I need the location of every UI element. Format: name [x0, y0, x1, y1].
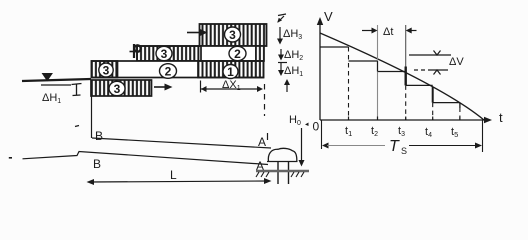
flag at row2 corner [130, 44, 141, 58]
circle 3 row1 [225, 27, 241, 42]
svg-text:2: 2 [234, 47, 241, 61]
t2 drop [377, 61, 379, 72]
TS dimension [322, 120, 483, 152]
dim tick left [72, 84, 82, 96]
arrow dH2 [278, 49, 284, 61]
circle 3 row3 [99, 63, 113, 78]
svg-text:B: B [93, 157, 101, 171]
circle 1 row3 [223, 65, 238, 80]
svg-text:Δt: Δt [383, 26, 393, 38]
t4 bold drop [432, 87, 434, 103]
t5 dashed lower [459, 108, 461, 120]
water surface line [22, 79, 91, 85]
wave block row4 (submerged) [91, 80, 152, 96]
H0 dimension arrow [299, 128, 305, 167]
circle 3 row4 [109, 81, 125, 96]
svg-text:3: 3 [103, 64, 110, 78]
svg-text:3: 3 [114, 82, 121, 96]
circle 3 row2 [156, 46, 172, 61]
ground hatches [256, 172, 304, 177]
step S3 [378, 71, 406, 73]
t1 dashed vertical [348, 47, 350, 120]
t axis [320, 117, 492, 123]
svg-text:V: V [324, 9, 333, 24]
t3 dashed lower [405, 85, 407, 120]
arrow up below [284, 79, 290, 92]
stray mark left of origin [305, 123, 309, 127]
tick top [277, 14, 286, 23]
wave block row1 (top) [200, 24, 267, 46]
arrow dH1 [278, 63, 287, 77]
dV dimension lines [409, 51, 451, 75]
ground line [256, 170, 309, 172]
arrow right of row4 [154, 84, 173, 91]
water level symbol [43, 74, 53, 81]
tick at A upper [267, 133, 269, 140]
step S2 [349, 60, 378, 62]
wave block row3 [92, 61, 264, 78]
slope line B-A upper [92, 138, 271, 148]
svg-text:t: t [499, 110, 503, 125]
svg-text:1: 1 [227, 65, 234, 79]
step S4 [406, 84, 433, 86]
dome legs [278, 162, 289, 185]
svg-text:3: 3 [229, 28, 236, 42]
svg-text:0: 0 [313, 120, 320, 134]
t4 dashed lower [432, 103, 434, 120]
left vertical down to B [91, 96, 93, 138]
explosion dome [267, 148, 298, 161]
svg-text:T: T [389, 138, 400, 155]
arrow into row1 [187, 29, 208, 37]
svg-text:2: 2 [165, 65, 172, 79]
axis ticks t1-t5 [349, 117, 460, 121]
V axis [317, 17, 323, 120]
step S5 [433, 102, 460, 104]
L dimension [87, 178, 272, 185]
t3 bold drop [405, 67, 407, 86]
stray mark [75, 126, 79, 127]
svg-text:L: L [170, 168, 177, 182]
step S1 [320, 46, 349, 48]
dt dimension arrows [362, 28, 417, 34]
t3 vertical upper [405, 25, 407, 67]
svg-text:S: S [401, 146, 407, 156]
circle 2 row2 [229, 46, 246, 61]
circle 2 row3 [160, 64, 177, 79]
bed line left dash [9, 157, 12, 159]
V(t) curve [320, 33, 484, 120]
wave block row2 [137, 46, 264, 61]
arrow dH3 [277, 27, 283, 45]
t5 drop [459, 103, 461, 108]
dX1 dimension [201, 81, 265, 117]
bottom bed line [23, 152, 269, 165]
svg-text:B: B [95, 129, 103, 143]
t2 vertical [377, 25, 379, 120]
svg-text:A: A [258, 135, 266, 149]
svg-text:ΔV: ΔV [449, 56, 464, 68]
svg-text:3: 3 [161, 47, 168, 61]
